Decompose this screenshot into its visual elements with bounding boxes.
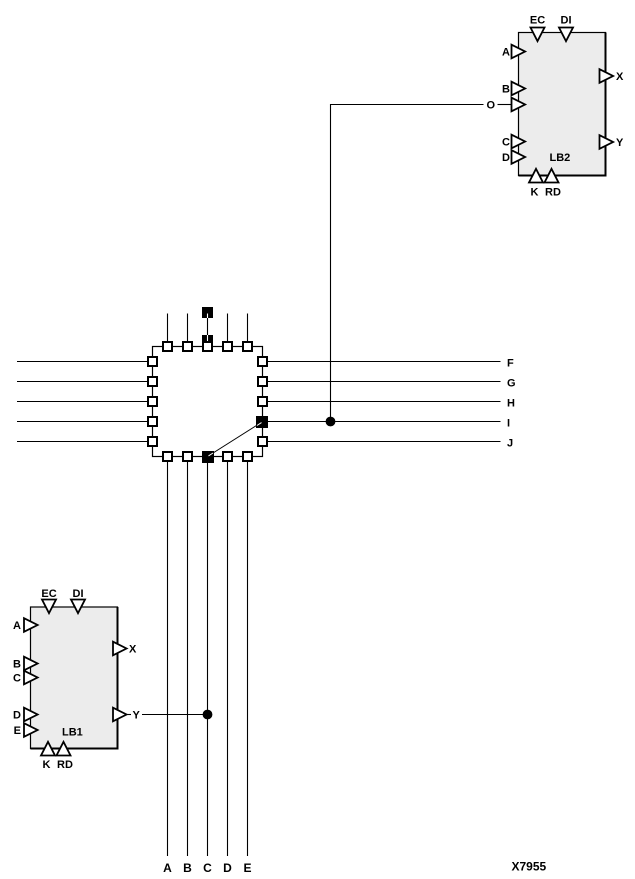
- svg-text:DI: DI: [561, 15, 572, 27]
- svg-text:EC: EC: [41, 588, 56, 600]
- svg-text:A: A: [13, 620, 21, 632]
- svg-text:J: J: [507, 438, 513, 450]
- svg-text:C: C: [13, 673, 21, 685]
- svg-text:LB1: LB1: [62, 727, 83, 739]
- svg-text:RD: RD: [545, 187, 561, 199]
- svg-text:RD: RD: [57, 759, 73, 771]
- svg-text:A: A: [502, 47, 510, 59]
- svg-text:E: E: [14, 725, 21, 737]
- svg-text:X: X: [616, 71, 624, 83]
- svg-text:I: I: [507, 418, 510, 430]
- svg-text:D: D: [502, 152, 510, 164]
- svg-text:K: K: [531, 187, 539, 199]
- svg-text:G: G: [507, 378, 516, 390]
- svg-text:E: E: [243, 861, 251, 875]
- svg-text:D: D: [13, 710, 21, 722]
- svg-text:C: C: [203, 861, 212, 875]
- svg-text:F: F: [507, 358, 514, 370]
- svg-text:H: H: [507, 398, 515, 410]
- svg-text:C: C: [502, 137, 510, 149]
- svg-text:Y: Y: [616, 137, 624, 149]
- svg-text:D: D: [223, 861, 232, 875]
- svg-text:O: O: [487, 100, 496, 112]
- svg-text:A: A: [163, 861, 172, 875]
- svg-text:X: X: [129, 644, 137, 656]
- svg-text:B: B: [183, 861, 192, 875]
- svg-text:B: B: [502, 84, 510, 96]
- svg-text:Y: Y: [133, 710, 141, 722]
- svg-text:K: K: [43, 759, 51, 771]
- svg-text:EC: EC: [530, 15, 545, 27]
- svg-text:LB2: LB2: [550, 152, 571, 164]
- svg-text:B: B: [13, 659, 21, 671]
- svg-text:X7955: X7955: [512, 860, 547, 874]
- svg-text:DI: DI: [73, 588, 84, 600]
